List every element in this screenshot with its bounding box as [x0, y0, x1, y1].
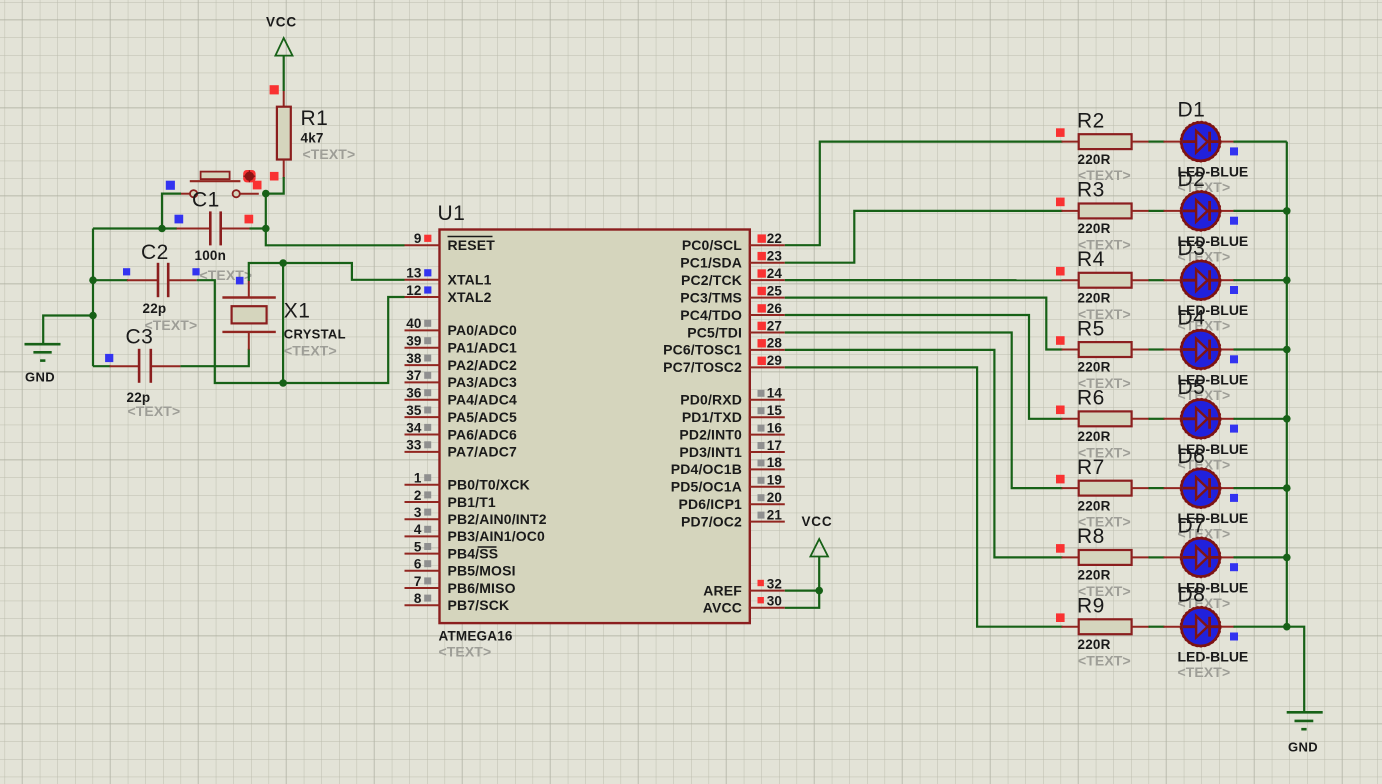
- wire: [1286, 142, 1288, 627]
- resistor R2 220R: [1056, 109, 1150, 183]
- pin 34 PA6/ADC6 (left): [405, 420, 517, 442]
- wire ground rail to C1: [93, 227, 177, 229]
- svg-text:D1: D1: [1178, 99, 1206, 122]
- svg-text:PA1/ADC1: PA1/ADC1: [448, 340, 517, 356]
- svg-text:27: 27: [767, 318, 782, 333]
- ground symbol (bottom right): [1287, 712, 1323, 754]
- svg-text:AVCC: AVCC: [703, 600, 742, 616]
- pin 1 PB0/T0/XCK (left): [405, 471, 530, 493]
- pin 12 XTAL2 (left): [405, 283, 492, 305]
- svg-text:22p: 22p: [143, 301, 167, 316]
- pin 32 AREF (right): [703, 576, 785, 598]
- svg-text:3: 3: [414, 505, 422, 520]
- svg-text:VCC: VCC: [802, 514, 833, 529]
- svg-text:PD3/INT1: PD3/INT1: [679, 444, 742, 460]
- wire R3 to D2: [1149, 210, 1165, 212]
- svg-text:XTAL1: XTAL1: [448, 272, 492, 288]
- pin 20 PD6/ICP1 (right): [679, 490, 785, 512]
- wire D7 cathode to bus: [1234, 556, 1287, 558]
- svg-text:PD6/ICP1: PD6/ICP1: [679, 496, 743, 512]
- svg-text:220R: 220R: [1078, 152, 1111, 167]
- ground symbol (left): [25, 344, 61, 384]
- pin 27 PC5/TDI (right): [687, 318, 785, 340]
- capacitor C3 22p: [110, 326, 181, 420]
- svg-text:<TEXT>: <TEXT>: [128, 403, 181, 419]
- svg-text:33: 33: [406, 438, 422, 453]
- wire R9 to D8: [1149, 626, 1165, 628]
- svg-text:PA2/ADC2: PA2/ADC2: [448, 357, 517, 373]
- svg-text:VCC: VCC: [266, 15, 297, 30]
- junction bus: [1283, 415, 1291, 423]
- pin 17 PD3/INT1 (right): [679, 438, 784, 460]
- pin 28 PC6/TOSC1 (right): [663, 336, 785, 358]
- LED D8 LED-BLUE: [1164, 584, 1249, 681]
- svg-text:PC7/TOSC2: PC7/TOSC2: [663, 359, 742, 375]
- svg-text:28: 28: [767, 336, 783, 351]
- svg-text:24: 24: [767, 266, 783, 281]
- svg-text:C2: C2: [141, 241, 169, 264]
- wire PC3 to R5: [785, 298, 1063, 350]
- pin 18 PD4/OC1B (right): [671, 455, 785, 477]
- pin 2 PB1/T1 (left): [405, 488, 496, 510]
- svg-text:R8: R8: [1077, 525, 1105, 548]
- LED D6 LED-BLUE: [1164, 445, 1249, 541]
- resistor R8 220R: [1056, 525, 1150, 599]
- svg-text:D2: D2: [1178, 168, 1206, 191]
- wire D2 cathode to bus: [1234, 210, 1287, 212]
- pin 16 PD2/INT0 (right): [679, 420, 784, 442]
- resistor R6 220R: [1056, 387, 1150, 461]
- svg-text:PA4/ADC4: PA4/ADC4: [448, 392, 517, 408]
- pin 25 PC3/TMS (right): [680, 283, 785, 305]
- svg-text:C3: C3: [126, 326, 154, 349]
- pin 30 AVCC (right): [703, 594, 785, 616]
- svg-text:20: 20: [767, 490, 782, 505]
- LED D4 LED-BLUE: [1164, 307, 1249, 404]
- svg-text:PC0/SCL: PC0/SCL: [682, 237, 742, 253]
- svg-text:PD1/TXD: PD1/TXD: [682, 409, 742, 425]
- wire: [249, 263, 405, 281]
- svg-text:PB5/MOSI: PB5/MOSI: [448, 563, 516, 579]
- svg-text:RESET: RESET: [448, 237, 496, 253]
- svg-text:2: 2: [414, 488, 422, 503]
- wire PC0 to R2: [785, 142, 1063, 246]
- wire D6 cathode to bus: [1234, 487, 1287, 489]
- svg-text:8: 8: [414, 591, 422, 606]
- svg-text:X1: X1: [284, 300, 311, 323]
- wire R8 to D7: [1149, 556, 1165, 558]
- capacitor C2 22p: [127, 241, 197, 333]
- svg-text:30: 30: [767, 594, 782, 609]
- svg-text:220R: 220R: [1078, 360, 1111, 375]
- wire D5 cathode to bus: [1234, 418, 1287, 420]
- svg-text:R2: R2: [1077, 109, 1105, 132]
- svg-text:D7: D7: [1178, 514, 1206, 537]
- svg-text:D6: D6: [1178, 445, 1206, 468]
- svg-text:7: 7: [414, 574, 422, 589]
- pin 22 PC0/SCL (right): [682, 231, 785, 253]
- pin 29 PC7/TOSC2 (right): [663, 353, 785, 375]
- svg-text:19: 19: [767, 473, 782, 488]
- svg-text:PB3/AIN1/OC0: PB3/AIN1/OC0: [448, 528, 546, 544]
- pin 26 PC4/TDO (right): [680, 301, 785, 323]
- wire R6 to D5: [1149, 418, 1165, 420]
- svg-text:C1: C1: [192, 189, 220, 212]
- svg-text:PB6/MISO: PB6/MISO: [448, 580, 516, 596]
- junction RESET node: [262, 190, 270, 198]
- svg-text:PB1/T1: PB1/T1: [448, 494, 496, 510]
- svg-text:D5: D5: [1178, 376, 1206, 399]
- pin 37 PA3/ADC3 (left): [405, 368, 517, 390]
- svg-text:40: 40: [406, 316, 421, 331]
- svg-text:39: 39: [406, 334, 421, 349]
- svg-text:6: 6: [414, 557, 422, 572]
- power symbol VCC (AVCC): [802, 514, 833, 557]
- svg-text:9: 9: [414, 231, 422, 246]
- svg-text:16: 16: [767, 420, 783, 435]
- svg-text:PD5/OC1A: PD5/OC1A: [671, 479, 742, 495]
- svg-text:17: 17: [767, 438, 782, 453]
- svg-text:220R: 220R: [1078, 290, 1111, 305]
- junction bus: [1283, 623, 1291, 631]
- wire: [92, 229, 94, 367]
- pin 4 PB3/AIN1/OC0 (left): [405, 522, 546, 544]
- svg-text:R5: R5: [1077, 317, 1105, 340]
- svg-text:15: 15: [767, 403, 783, 418]
- svg-text:D3: D3: [1178, 237, 1206, 260]
- wire: [266, 194, 405, 246]
- wire D1 cathode to bus: [1234, 141, 1287, 143]
- wire: [197, 280, 283, 383]
- pin 33 PA7/ADC7 (left): [405, 438, 517, 460]
- svg-text:R7: R7: [1077, 456, 1105, 479]
- wire R2 to D1: [1149, 141, 1165, 143]
- svg-text:34: 34: [406, 420, 422, 435]
- svg-text:4: 4: [414, 522, 422, 537]
- wire PC4 to R6: [785, 315, 1063, 419]
- wire PC7 to R9: [785, 367, 1063, 626]
- svg-text:R9: R9: [1077, 595, 1105, 618]
- wire: [43, 316, 93, 345]
- svg-text:D4: D4: [1178, 307, 1206, 330]
- junction bus: [1283, 484, 1291, 492]
- svg-text:14: 14: [767, 386, 783, 401]
- svg-text:PB4/SS: PB4/SS: [448, 545, 499, 561]
- wire PC1 to R3: [785, 211, 1063, 263]
- svg-text:GND: GND: [1288, 740, 1318, 755]
- svg-text:21: 21: [767, 507, 783, 522]
- LED D5 LED-BLUE: [1164, 376, 1249, 473]
- svg-text:LED-BLUE: LED-BLUE: [1178, 649, 1249, 665]
- pin 6 PB5/MOSI (left): [405, 557, 516, 579]
- svg-text:GND: GND: [25, 370, 55, 385]
- capacitor C1 100n: [177, 189, 253, 284]
- svg-text:R4: R4: [1077, 248, 1105, 271]
- svg-text:5: 5: [414, 539, 422, 554]
- svg-text:220R: 220R: [1078, 498, 1111, 513]
- pin 39 PA1/ADC1 (left): [405, 334, 517, 356]
- svg-text:23: 23: [767, 249, 783, 264]
- svg-text:PC6/TOSC1: PC6/TOSC1: [663, 342, 742, 358]
- svg-text:PA6/ADC6: PA6/ADC6: [448, 426, 517, 442]
- junction XTAL1 row: [279, 259, 287, 267]
- svg-text:PB2/AIN0/INT2: PB2/AIN0/INT2: [448, 511, 547, 527]
- svg-text:R6: R6: [1077, 387, 1105, 410]
- svg-text:25: 25: [767, 283, 783, 298]
- pin 40 PA0/ADC0 (left): [405, 316, 517, 338]
- pin 36 PA4/ADC4 (left): [405, 386, 517, 408]
- pin 23 PC1/SDA (right): [680, 249, 785, 271]
- wire PC5 to R7: [785, 333, 1063, 489]
- svg-text:26: 26: [767, 301, 783, 316]
- logic state squares near button / caps: [105, 85, 279, 362]
- microcontroller U1 ATMEGA16 body: [438, 202, 750, 660]
- svg-text:ATMEGA16: ATMEGA16: [439, 629, 513, 644]
- svg-text:R1: R1: [301, 107, 329, 130]
- wire R4 to D3: [1149, 279, 1165, 281]
- wire pin 32 AREF: [785, 589, 819, 591]
- svg-text:<TEXT>: <TEXT>: [439, 644, 492, 660]
- svg-text:<TEXT>: <TEXT>: [284, 343, 337, 359]
- svg-text:PC3/TMS: PC3/TMS: [680, 289, 742, 305]
- resistor R5 220R: [1056, 317, 1150, 391]
- svg-text:PB0/T0/XCK: PB0/T0/XCK: [448, 477, 530, 493]
- wire D8 cathode to bus: [1234, 626, 1287, 628]
- wire D3 cathode to bus: [1234, 279, 1287, 281]
- wire VCC to AREF/AVCC: [818, 557, 820, 591]
- junction AREF/AVCC: [815, 587, 823, 595]
- pin 19 PD5/OC1A (right): [671, 473, 785, 495]
- svg-text:PD2/INT0: PD2/INT0: [679, 426, 742, 442]
- svg-text:4k7: 4k7: [301, 131, 324, 146]
- junction bus: [1283, 207, 1291, 215]
- svg-text:37: 37: [406, 368, 421, 383]
- svg-text:13: 13: [406, 266, 422, 281]
- svg-text:PD4/OC1B: PD4/OC1B: [671, 461, 742, 477]
- svg-text:PD7/OC2: PD7/OC2: [681, 513, 742, 529]
- junction bus: [1283, 276, 1291, 284]
- svg-text:220R: 220R: [1078, 429, 1111, 444]
- svg-text:CRYSTAL: CRYSTAL: [284, 327, 346, 342]
- wire node XTAL1-XTAL2 vertical: [282, 263, 284, 383]
- resistor R9 220R: [1056, 595, 1150, 669]
- svg-text:PA5/ADC5: PA5/ADC5: [448, 409, 517, 425]
- svg-text:PB7/SCK: PB7/SCK: [448, 597, 510, 613]
- svg-text:32: 32: [767, 576, 782, 591]
- pin 15 PD1/TXD (right): [682, 403, 785, 425]
- pin 8 PB7/SCK (left): [405, 591, 510, 613]
- junction bus: [1283, 346, 1291, 354]
- wire rail to C2: [93, 279, 128, 281]
- wire: [266, 177, 284, 194]
- svg-text:PA0/ADC0: PA0/ADC0: [448, 322, 517, 338]
- svg-text:PD0/RXD: PD0/RXD: [680, 392, 742, 408]
- svg-text:D8: D8: [1178, 584, 1206, 607]
- svg-text:PC1/SDA: PC1/SDA: [680, 255, 742, 271]
- wire: [162, 194, 181, 229]
- pin 9 RESET (left): [405, 231, 496, 253]
- pin 21 PD7/OC2 (right): [681, 507, 785, 529]
- pin 14 PD0/RXD (right): [680, 386, 785, 408]
- svg-text:U1: U1: [438, 202, 466, 225]
- wire rail to C3: [93, 365, 111, 367]
- pin 7 PB6/MISO (left): [405, 574, 516, 596]
- button actuator dot: [243, 170, 255, 182]
- svg-text:220R: 220R: [1078, 637, 1111, 652]
- junction rail / C2: [89, 276, 97, 284]
- pin 38 PA2/ADC2 (left): [405, 351, 517, 373]
- svg-text:35: 35: [406, 403, 422, 418]
- resistor R3 220R: [1056, 179, 1150, 253]
- LED D1 LED-BLUE: [1164, 99, 1249, 196]
- svg-text:1: 1: [414, 471, 422, 486]
- pin 5 PB4/SS (left): [405, 539, 499, 561]
- power symbol VCC (top): [266, 15, 297, 56]
- svg-text:AREF: AREF: [703, 582, 742, 598]
- junction bus: [1283, 554, 1291, 562]
- resistor R7 220R: [1056, 456, 1150, 530]
- svg-text:29: 29: [767, 353, 782, 368]
- svg-text:PA3/ADC3: PA3/ADC3: [448, 374, 517, 390]
- svg-text:100n: 100n: [195, 248, 227, 263]
- wire PC2 to R4: [785, 279, 1063, 281]
- svg-text:<TEXT>: <TEXT>: [1078, 652, 1131, 668]
- wire D4 cathode to bus: [1234, 348, 1287, 350]
- svg-text:36: 36: [406, 386, 422, 401]
- svg-text:XTAL2: XTAL2: [448, 289, 492, 305]
- wire: [283, 297, 404, 383]
- svg-text:220R: 220R: [1078, 221, 1111, 236]
- wire: [180, 349, 248, 366]
- svg-text:<TEXT>: <TEXT>: [303, 146, 356, 162]
- junction XTAL2 row: [279, 379, 287, 387]
- LED D2 LED-BLUE: [1164, 168, 1249, 265]
- svg-text:22: 22: [767, 231, 782, 246]
- pin 24 PC2/TCK (right): [681, 266, 785, 288]
- svg-text:12: 12: [406, 283, 421, 298]
- wire R5 to D4: [1149, 348, 1165, 350]
- svg-text:38: 38: [406, 351, 422, 366]
- resistor R4 220R: [1056, 248, 1150, 322]
- svg-text:R3: R3: [1077, 179, 1105, 202]
- pin 35 PA5/ADC5 (left): [405, 403, 517, 425]
- wire R7 to D6: [1149, 487, 1165, 489]
- crystal X1: [222, 281, 345, 359]
- wire C1 to RESET node: [250, 227, 266, 229]
- wire: [785, 591, 819, 608]
- junction C1 right: [262, 225, 270, 233]
- svg-text:PC5/TDI: PC5/TDI: [687, 324, 742, 340]
- junction button-left / C1 row: [158, 225, 166, 233]
- svg-text:18: 18: [767, 455, 783, 470]
- svg-text:220R: 220R: [1078, 568, 1111, 583]
- wire VCC to R1: [283, 56, 285, 91]
- svg-text:<TEXT>: <TEXT>: [1178, 664, 1231, 680]
- svg-text:PC2/TCK: PC2/TCK: [681, 272, 742, 288]
- wire: [1287, 627, 1304, 712]
- wire PC6 to R8: [785, 350, 1063, 558]
- LED D3 LED-BLUE: [1164, 237, 1249, 334]
- junction rail / GND: [89, 312, 97, 320]
- svg-text:PA7/ADC7: PA7/ADC7: [448, 444, 517, 460]
- resistor R1 4k7 (reset pull-up): [277, 91, 355, 178]
- svg-text:PC4/TDO: PC4/TDO: [680, 307, 742, 323]
- pin 3 PB2/AIN0/INT2 (left): [405, 505, 547, 527]
- LED D7 LED-BLUE: [1164, 514, 1249, 611]
- pin 13 XTAL1 (left): [405, 266, 492, 288]
- push button (reset): [181, 172, 259, 198]
